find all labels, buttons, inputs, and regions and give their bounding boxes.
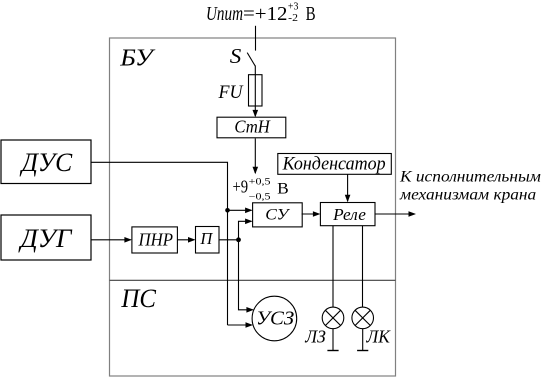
switch S blade	[247, 53, 255, 66]
svg-text:В: В	[306, 4, 316, 25]
svg-text:Конденсатор: Конденсатор	[282, 153, 386, 174]
block ДУС	[1, 140, 91, 184]
wire fuse to СтН with arrowhead	[254, 106, 256, 116]
svg-text:ПНР: ПНР	[138, 229, 173, 249]
svg-text:+0,5: +0,5	[249, 177, 271, 187]
label Uпит supply voltage	[206, 2, 316, 25]
svg-text:S: S	[230, 44, 242, 68]
svg-text:+9: +9	[233, 176, 249, 196]
wire ПНР to П with arrowhead	[177, 239, 194, 241]
divider line between БУ and ПС	[110, 279, 396, 281]
svg-text:FU: FU	[218, 82, 244, 103]
wire Реле to lamp ЛК	[362, 226, 364, 308]
block БУ container box	[110, 38, 396, 376]
wire node B up to СУ input 2 with arrowhead	[239, 221, 252, 240]
svg-text:-2: -2	[288, 13, 298, 24]
lamp ЛК	[352, 307, 374, 329]
wire node A branch to УСЗ lower input with arrowhead	[228, 324, 252, 326]
block УСЗ circle	[252, 296, 297, 341]
svg-text:Uпит: Uпит	[206, 4, 243, 25]
svg-text:−0,5: −0,5	[249, 192, 271, 202]
svg-text:К исполнительным: К исполнительным	[399, 167, 541, 186]
wire СтН output arrow down	[254, 138, 256, 173]
wire switch to fuse	[254, 66, 256, 107]
block П	[196, 227, 220, 254]
wire node B down to УСЗ upper input with arrowhead	[239, 240, 253, 310]
svg-text:СтН: СтН	[234, 117, 270, 137]
node B junction dot	[236, 237, 241, 242]
wire node A to СУ input 1 with arrowhead	[228, 209, 252, 211]
wire supply input	[255, 26, 257, 51]
svg-text:ЛК: ЛК	[366, 327, 392, 347]
wire Реле to lamp ЛЗ	[332, 226, 334, 308]
svg-text:=+12: =+12	[243, 4, 288, 25]
svg-text:ЛЗ: ЛЗ	[304, 327, 326, 347]
node A junction dot	[225, 208, 230, 213]
block ДУГ	[1, 215, 91, 260]
block ПНР	[132, 227, 178, 253]
wire СУ to Реле with arrowhead	[302, 213, 320, 215]
fuse FU	[249, 75, 263, 106]
block СУ	[253, 203, 303, 227]
svg-text:СУ: СУ	[265, 206, 290, 223]
ground below lamp ЛК	[357, 329, 368, 351]
label +9В supply	[233, 176, 289, 202]
wire Реле output to crane mechanisms with arrowhead	[375, 213, 415, 215]
wire Конденсатор to Реле with arrowhead	[347, 174, 349, 201]
block Реле	[320, 203, 375, 226]
block СтН	[217, 117, 286, 138]
label К исполнительным механизмам крана	[399, 167, 541, 204]
svg-text:УСЗ: УСЗ	[256, 308, 294, 330]
wire П to node B	[219, 239, 239, 241]
svg-text:ДУС: ДУС	[19, 148, 73, 177]
svg-text:БУ: БУ	[119, 46, 156, 72]
svg-text:ДУГ: ДУГ	[17, 224, 72, 253]
wire ДУГ to ПНР with arrowhead	[91, 239, 131, 241]
svg-text:Реле: Реле	[332, 205, 366, 224]
svg-text:П: П	[199, 229, 213, 248]
svg-text:+3: +3	[288, 2, 299, 13]
block Конденсатор	[278, 153, 392, 174]
svg-text:ПС: ПС	[120, 284, 156, 313]
lamp ЛЗ	[322, 307, 344, 329]
svg-text:В: В	[277, 180, 289, 197]
wire ДУС to node A	[91, 162, 228, 325]
svg-text:механизмам крана: механизмам крана	[399, 185, 536, 204]
ground below lamp ЛЗ	[327, 329, 338, 351]
